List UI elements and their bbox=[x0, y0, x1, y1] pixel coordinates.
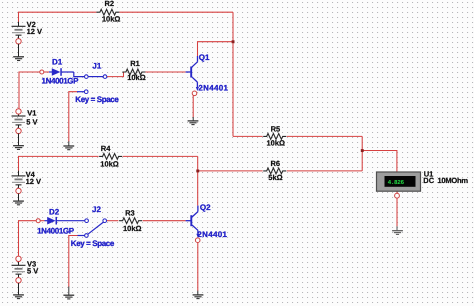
svg-text:R6: R6 bbox=[271, 159, 281, 168]
svg-text:5kΩ: 5kΩ bbox=[268, 173, 282, 182]
svg-text:10kΩ: 10kΩ bbox=[267, 139, 286, 148]
svg-text:4.826: 4.826 bbox=[388, 179, 405, 186]
svg-text:5 V: 5 V bbox=[26, 118, 37, 127]
svg-text:D2: D2 bbox=[49, 208, 60, 217]
svg-text:Q2: Q2 bbox=[200, 203, 211, 212]
svg-text:R4: R4 bbox=[101, 144, 111, 153]
svg-text:10kΩ: 10kΩ bbox=[123, 224, 142, 233]
svg-text:12 V: 12 V bbox=[26, 177, 41, 186]
svg-text:10MOhm: 10MOhm bbox=[438, 176, 469, 185]
svg-text:10kΩ: 10kΩ bbox=[102, 14, 121, 23]
svg-text:J1: J1 bbox=[92, 61, 101, 70]
svg-text:Q1: Q1 bbox=[199, 53, 210, 62]
svg-text:2N4401: 2N4401 bbox=[197, 230, 227, 239]
svg-text:Key = Space: Key = Space bbox=[75, 95, 119, 104]
svg-text:Key = Space: Key = Space bbox=[71, 239, 115, 248]
svg-text:DC: DC bbox=[423, 176, 434, 185]
svg-text:1N4001GP: 1N4001GP bbox=[42, 76, 80, 85]
svg-text:5 V: 5 V bbox=[27, 267, 38, 276]
svg-text:12 V: 12 V bbox=[27, 27, 42, 36]
svg-text:J2: J2 bbox=[92, 205, 101, 214]
svg-text:V1: V1 bbox=[27, 109, 36, 118]
svg-text:10kΩ: 10kΩ bbox=[100, 160, 119, 169]
svg-text:R2: R2 bbox=[105, 0, 115, 8]
svg-text:R3: R3 bbox=[125, 209, 135, 218]
svg-text:10kΩ: 10kΩ bbox=[127, 73, 146, 82]
svg-text:1N4001GP: 1N4001GP bbox=[37, 227, 75, 236]
svg-text:R5: R5 bbox=[271, 125, 281, 134]
svg-text:R1: R1 bbox=[130, 59, 140, 68]
svg-text:D1: D1 bbox=[52, 58, 63, 67]
svg-text:2N4401: 2N4401 bbox=[198, 83, 228, 92]
